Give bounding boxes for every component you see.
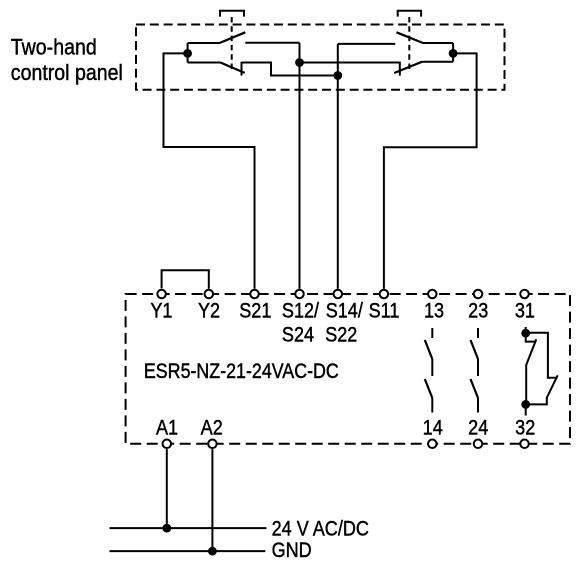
svg-text:24 V AC/DC: 24 V AC/DC bbox=[272, 517, 369, 541]
svg-text:31: 31 bbox=[515, 299, 535, 323]
svg-text:control panel: control panel bbox=[11, 61, 123, 86]
svg-text:Y1: Y1 bbox=[150, 299, 172, 323]
svg-text:14: 14 bbox=[423, 416, 443, 440]
svg-text:S11: S11 bbox=[369, 299, 400, 323]
svg-text:32: 32 bbox=[515, 416, 535, 440]
svg-text:ESR5-NZ-21-24VAC-DC: ESR5-NZ-21-24VAC-DC bbox=[144, 360, 339, 384]
svg-text:S21: S21 bbox=[239, 299, 271, 323]
svg-text:23: 23 bbox=[468, 299, 488, 323]
svg-text:13: 13 bbox=[424, 299, 444, 323]
svg-text:S22: S22 bbox=[325, 323, 357, 347]
svg-text:A1: A1 bbox=[156, 416, 178, 440]
svg-text:Y2: Y2 bbox=[198, 299, 220, 323]
svg-text:A2: A2 bbox=[201, 416, 223, 440]
svg-text:S14/: S14/ bbox=[326, 299, 364, 323]
svg-text:GND: GND bbox=[272, 539, 312, 563]
svg-text:24: 24 bbox=[468, 416, 488, 440]
svg-text:Two-hand: Two-hand bbox=[11, 35, 97, 60]
svg-text:S24: S24 bbox=[282, 323, 314, 347]
svg-text:S12/: S12/ bbox=[282, 299, 320, 323]
